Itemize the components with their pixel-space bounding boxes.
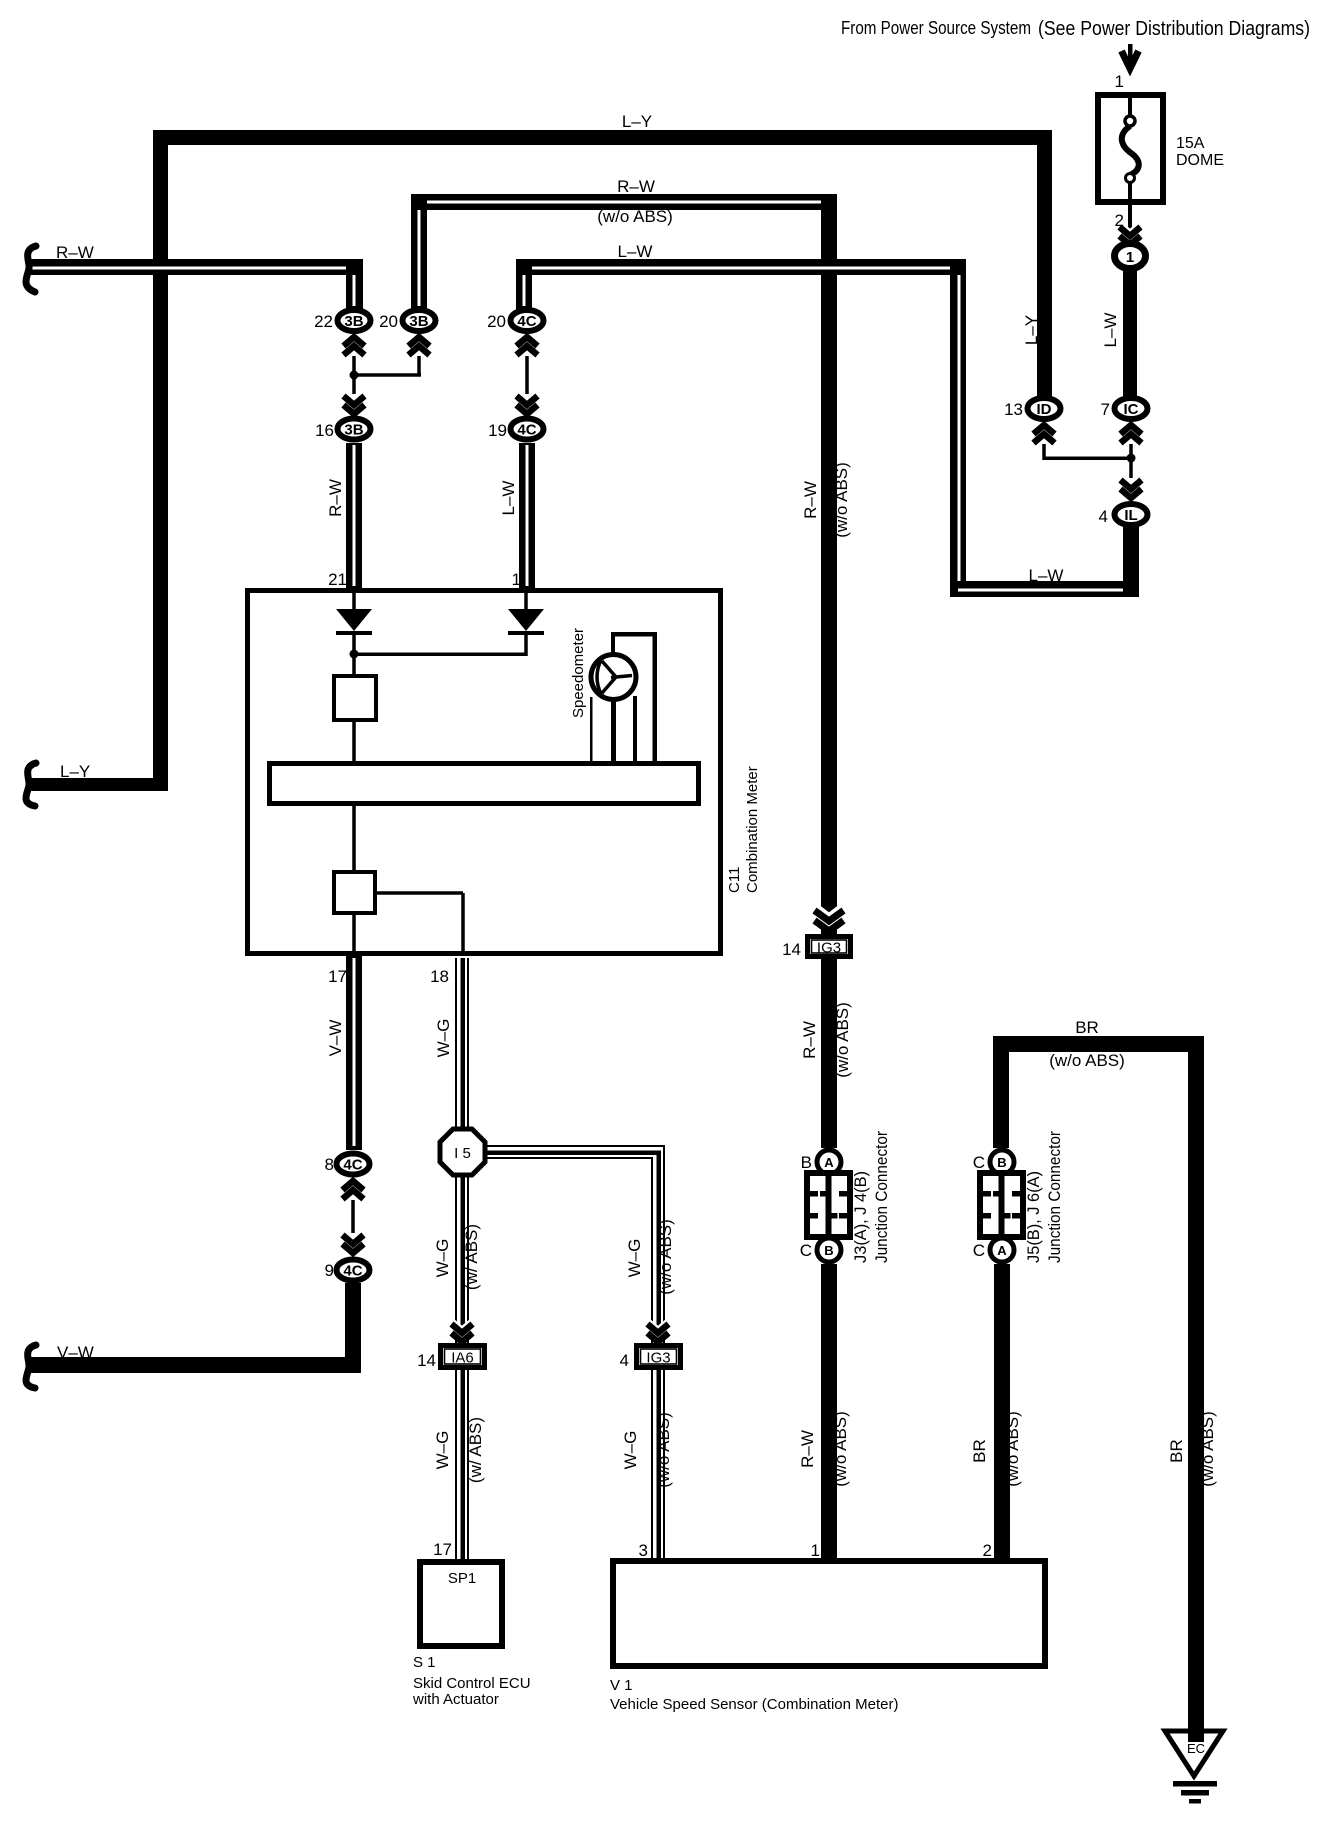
svg-text:15A: 15A: [1176, 135, 1205, 152]
svg-text:L–Y: L–Y: [622, 112, 652, 131]
connector box 4 IG3: [637, 1346, 681, 1368]
wire D1 to junction: [352, 635, 356, 654]
connector oval 22 3B: [338, 310, 371, 331]
wire W-G below IA6 to SP1: [455, 1370, 469, 1559]
svg-text:3B: 3B: [344, 313, 363, 330]
svg-text:(w/o ABS): (w/o ABS): [1003, 1411, 1022, 1487]
svg-text:Speedometer: Speedometer: [570, 628, 587, 718]
svg-text:IA6: IA6: [451, 1350, 474, 1367]
wire L-W vertical from dome connector to IC: [1123, 269, 1137, 398]
svg-text:Skid Control ECU: Skid Control ECU: [413, 1675, 531, 1692]
wire R-W (w/o ABS) long vertical: [821, 194, 837, 934]
svg-text:4C: 4C: [343, 1157, 362, 1174]
meter block square upper: [334, 676, 376, 720]
svg-text:(w/o ABS): (w/o ABS): [833, 1002, 852, 1078]
svg-text:with Actuator: with Actuator: [412, 1691, 499, 1708]
svg-text:SP1: SP1: [448, 1570, 476, 1587]
wire L-Y bottom-left horizontal: [31, 778, 168, 791]
svg-text:J5(B), J 6(A): J5(B), J 6(A): [1024, 1171, 1043, 1263]
svg-text:7: 7: [1101, 400, 1110, 419]
svg-text:J3(A), J 4(B): J3(A), J 4(B): [851, 1171, 870, 1263]
diode D2: [508, 609, 544, 635]
svg-text:(w/ ABS): (w/ ABS): [462, 1224, 481, 1290]
continuation brace V-W left: [26, 1345, 36, 1388]
svg-text:4: 4: [620, 1351, 629, 1370]
wire L-W right vertical: [950, 259, 966, 597]
label J5(B) J6(A) Junction Connector rotated: [1024, 1131, 1064, 1263]
svg-text:L–W: L–W: [618, 242, 653, 261]
arrow up into 20 4C: [516, 337, 538, 360]
svg-text:(w/o ABS): (w/o ABS): [656, 1219, 675, 1295]
power source arrow: [1122, 44, 1139, 71]
svg-text:13: 13: [1004, 400, 1023, 419]
svg-text:L–W: L–W: [1029, 566, 1064, 585]
wire W-G (w/o ABS) vertical to IG3: [651, 1145, 665, 1345]
wire jumper ID-IC junction: [1042, 444, 1133, 460]
wire L-W 1 vertical to meter: [519, 443, 535, 590]
svg-text:20: 20: [487, 312, 506, 331]
Skid Control ECU box SP1: [420, 1562, 502, 1646]
svg-text:(w/o ABS): (w/o ABS): [832, 462, 851, 538]
svg-text:19: 19: [488, 421, 507, 440]
svg-text:3B: 3B: [344, 422, 363, 439]
connector box 14 IG3: [808, 937, 851, 957]
svg-text:BR: BR: [970, 1439, 989, 1463]
svg-text:R–W: R–W: [800, 1021, 819, 1059]
svg-text:S 1: S 1: [413, 1654, 436, 1671]
svg-text:L–W: L–W: [1101, 313, 1120, 348]
label W-G w ABS rotated low: [433, 1417, 485, 1483]
wire 8 to 9: [351, 1200, 355, 1233]
svg-text:(See Power Distribution Diagra: (See Power Distribution Diagrams): [1038, 17, 1310, 40]
arrow up into ID: [1033, 425, 1055, 448]
connector oval 7 IC: [1115, 398, 1148, 419]
svg-text:(w/o ABS): (w/o ABS): [654, 1412, 673, 1488]
connector oval 20 3B: [403, 310, 436, 331]
continuation brace R-W left: [26, 246, 36, 292]
svg-text:W–G: W–G: [433, 1239, 452, 1278]
wire BR left vertical to junction connector: [993, 1036, 1009, 1148]
connector oval 20 4C: [511, 310, 544, 331]
octagon I5: [440, 1129, 485, 1175]
svg-text:1: 1: [512, 570, 521, 589]
wire BR horizontal (w/o ABS): [993, 1036, 1204, 1052]
connector oval 16 3B: [338, 419, 371, 440]
wire V-W bottom horizontal: [31, 1357, 361, 1373]
fuse output wire pin2: [1128, 205, 1132, 230]
svg-text:2: 2: [1115, 211, 1124, 230]
svg-text:I 5: I 5: [454, 1145, 471, 1162]
svg-text:22: 22: [314, 312, 333, 331]
wire BR junction connector to V1: [994, 1264, 1010, 1558]
wire R-W left vertical to 22-3B: [346, 259, 363, 309]
meter block square lower: [334, 872, 375, 913]
arrow up into 20 3B: [408, 337, 430, 360]
wire R-W vertical to 20-3B: [411, 194, 427, 309]
wire R-W left horizontal: [31, 259, 363, 275]
label J3(A) J4(B) Junction Connector rotated: [851, 1131, 891, 1263]
svg-text:R–W: R–W: [798, 1430, 817, 1468]
wire 20 4C down to 19 4C: [525, 356, 529, 394]
wire lower square to pin17: [352, 915, 356, 956]
wire W-G below IG3 to V1 pin3: [651, 1370, 665, 1558]
ground EC: [1165, 1731, 1223, 1804]
svg-text:4: 4: [1099, 507, 1108, 526]
svg-text:EC: EC: [1187, 1741, 1205, 1756]
wire junction to 20 3B: [354, 356, 421, 377]
arrow up into 8 4C: [342, 1181, 364, 1204]
arrow down into IL: [1120, 476, 1142, 499]
svg-text:From Power Source System: From Power Source System: [841, 18, 1031, 38]
wire L-W vertical below IL: [1123, 526, 1139, 597]
wire R-W (w/o ABS) junction connector to V1: [821, 1264, 837, 1558]
svg-text:L–W: L–W: [499, 481, 518, 516]
speedometer top loop wire: [611, 632, 657, 761]
connector oval 13 ID: [1028, 398, 1061, 419]
svg-text:1: 1: [1115, 72, 1124, 91]
svg-text:Junction Connector: Junction Connector: [872, 1131, 891, 1263]
svg-text:18: 18: [430, 967, 449, 986]
svg-text:R–W: R–W: [326, 479, 345, 517]
wire bus bar to lower square: [352, 806, 356, 870]
svg-text:DOME: DOME: [1176, 152, 1224, 169]
wire V-W 17 vertical from meter: [346, 956, 362, 1150]
wire junction to resistor block: [352, 654, 356, 674]
svg-text:B: B: [997, 1155, 1006, 1170]
label V1 Vehicle Speed Sensor: [610, 1677, 899, 1713]
svg-text:C: C: [800, 1241, 812, 1260]
wire L-Y top horizontal: [153, 130, 1052, 145]
vehicle speed sensor box V1: [613, 1561, 1045, 1666]
svg-text:(w/o ABS): (w/o ABS): [1198, 1411, 1217, 1487]
svg-text:2: 2: [983, 1541, 992, 1560]
svg-text:1: 1: [811, 1541, 820, 1560]
junction dot ID-IC: [1127, 454, 1136, 463]
connector oval 4 IL: [1115, 504, 1148, 525]
label W-G w ABS rotated mid: [433, 1224, 481, 1290]
junction connector J5(B) J6(A) body: [980, 1173, 1023, 1237]
svg-text:17: 17: [433, 1540, 452, 1559]
wire junction down to IL: [1129, 458, 1133, 478]
connector oval 9 4C: [337, 1260, 370, 1281]
wire W-G from I5 down to IA6: [455, 1175, 469, 1345]
svg-text:14: 14: [417, 1351, 436, 1370]
svg-text:16: 16: [315, 421, 334, 440]
wire W-G 18 vertical from meter: [455, 958, 469, 1129]
svg-text:8: 8: [325, 1155, 334, 1174]
svg-text:W–G: W–G: [625, 1239, 644, 1278]
connector oval 8 4C: [337, 1154, 370, 1175]
svg-text:V–W: V–W: [57, 1343, 94, 1362]
wire R-W (w/o ABS) IG3 to junction connector: [821, 959, 837, 1148]
svg-text:Vehicle Speed Sensor (Combinat: Vehicle Speed Sensor (Combination Meter): [610, 1696, 899, 1713]
speedometer leads to bus bar: [590, 696, 637, 761]
svg-text:ID: ID: [1037, 401, 1052, 418]
label R-W wo ABS rotated mid right: [800, 1002, 852, 1078]
label S1 Skid Control ECU: [412, 1654, 531, 1708]
wire BR right vertical to ground: [1188, 1036, 1204, 1734]
svg-text:IL: IL: [1124, 507, 1137, 524]
svg-text:V–W: V–W: [326, 1020, 345, 1057]
wire L-W vertical to 20-4C: [516, 259, 532, 309]
wire L-W top horizontal: [516, 259, 966, 275]
svg-text:20: 20: [379, 312, 398, 331]
arrow down into 19 4C: [516, 392, 538, 415]
arrow down into IA6: [451, 1320, 473, 1343]
wire V-W vertical below 9-4C: [345, 1283, 361, 1373]
svg-text:3: 3: [639, 1541, 648, 1560]
wire lower square to pin18: [377, 891, 465, 956]
svg-text:IC: IC: [1124, 401, 1139, 418]
arrow down into 16 3B: [343, 392, 365, 415]
fuse element: [1122, 95, 1139, 205]
label BR rotated left: [970, 1411, 1022, 1487]
wire R-W 21 vertical to meter: [346, 443, 362, 590]
connector oval 19 4C: [511, 419, 544, 440]
arrow into dome connector: [1119, 223, 1141, 246]
svg-text:14: 14: [782, 940, 801, 959]
svg-text:B: B: [824, 1243, 833, 1258]
svg-text:Junction Connector: Junction Connector: [1045, 1131, 1064, 1263]
wire jumper 22 to junction: [352, 356, 356, 373]
svg-text:L–Y: L–Y: [60, 762, 90, 781]
svg-text:R–W: R–W: [801, 481, 820, 519]
label BR rotated right: [1167, 1411, 1217, 1487]
svg-text:BR: BR: [1075, 1018, 1099, 1037]
svg-text:(w/o ABS): (w/o ABS): [1049, 1051, 1125, 1070]
junction dot: [350, 371, 359, 380]
svg-text:Combination Meter: Combination Meter: [744, 766, 761, 893]
junction connector J3(A) J4(B) circle B: [817, 1238, 841, 1262]
svg-text:W–G: W–G: [433, 1431, 452, 1470]
svg-text:R–W: R–W: [617, 177, 655, 196]
wire W-G horizontal from I5 to right branch: [485, 1145, 665, 1159]
svg-text:R–W: R–W: [56, 243, 94, 262]
svg-text:4C: 4C: [517, 422, 536, 439]
wire L-Y right vertical to ID: [1037, 130, 1052, 398]
svg-text:3B: 3B: [409, 313, 428, 330]
junction connector J5(B) J6(A) circle A: [990, 1238, 1014, 1262]
svg-text:4C: 4C: [343, 1263, 362, 1280]
wire junction down to 16 3B: [352, 378, 356, 394]
svg-text:IG3: IG3: [817, 940, 841, 957]
label C11 Combination Meter rotated: [726, 766, 761, 893]
arrow down into IG3 14: [815, 906, 844, 932]
diode D1: [336, 609, 372, 635]
svg-text:C: C: [973, 1153, 985, 1172]
junction connector J5(B) J6(A) circle B: [990, 1150, 1014, 1174]
svg-text:(w/o ABS): (w/o ABS): [831, 1411, 850, 1487]
arrow down into 9 4C: [342, 1231, 364, 1254]
svg-text:C: C: [973, 1241, 985, 1260]
svg-text:BR: BR: [1167, 1439, 1186, 1463]
svg-text:A: A: [824, 1155, 834, 1170]
meter pin21 lead: [352, 591, 356, 609]
wire square to bus bar: [352, 722, 356, 761]
connector oval 1 (dome): [1115, 244, 1146, 269]
junction connector J3(A) J4(B) body: [807, 1173, 850, 1237]
svg-text:21: 21: [328, 570, 347, 589]
continuation brace L-Y left: [26, 763, 36, 806]
svg-text:W–G: W–G: [621, 1431, 640, 1470]
arrow up into IC: [1120, 425, 1142, 448]
arrow down into IG3 (w/o ABS): [647, 1320, 669, 1343]
wire L-W lower horizontal: [950, 581, 1139, 597]
svg-text:C11: C11: [726, 867, 743, 893]
junction connector J3(A) J4(B) circle A: [817, 1150, 841, 1174]
svg-text:L–Y: L–Y: [1022, 315, 1041, 345]
junction dot meter: [350, 650, 359, 659]
svg-text:4C: 4C: [517, 313, 536, 330]
svg-text:17: 17: [328, 967, 347, 986]
label W-G wo ABS rotated mid: [625, 1219, 675, 1295]
meter pin1 lead: [524, 591, 528, 609]
svg-text:IG3: IG3: [646, 1350, 670, 1367]
svg-text:V 1: V 1: [610, 1677, 633, 1694]
connector box 14 IA6: [441, 1346, 485, 1368]
svg-text:(w/o ABS): (w/o ABS): [597, 207, 673, 226]
meter bus bar: [270, 764, 699, 804]
speedometer circle: [591, 655, 636, 700]
label R-W wo ABS rotated bottom: [798, 1411, 850, 1487]
arrow up into 22 3B: [343, 337, 365, 360]
svg-text:(w/ ABS): (w/ ABS): [466, 1417, 485, 1483]
wire L-Y left vertical: [153, 130, 168, 791]
label W-G wo ABS rotated low: [621, 1412, 673, 1488]
svg-text:B: B: [801, 1153, 812, 1172]
svg-text:W–G: W–G: [434, 1019, 453, 1058]
svg-text:1: 1: [1126, 249, 1134, 266]
wire R-W upper horizontal (w/o ABS): [411, 194, 837, 210]
svg-text:9: 9: [325, 1261, 334, 1280]
combination meter box C11: [248, 591, 721, 954]
svg-text:A: A: [997, 1243, 1007, 1258]
wire D2 to junction: [354, 635, 528, 656]
fuse 15A DOME box: [1098, 95, 1163, 202]
